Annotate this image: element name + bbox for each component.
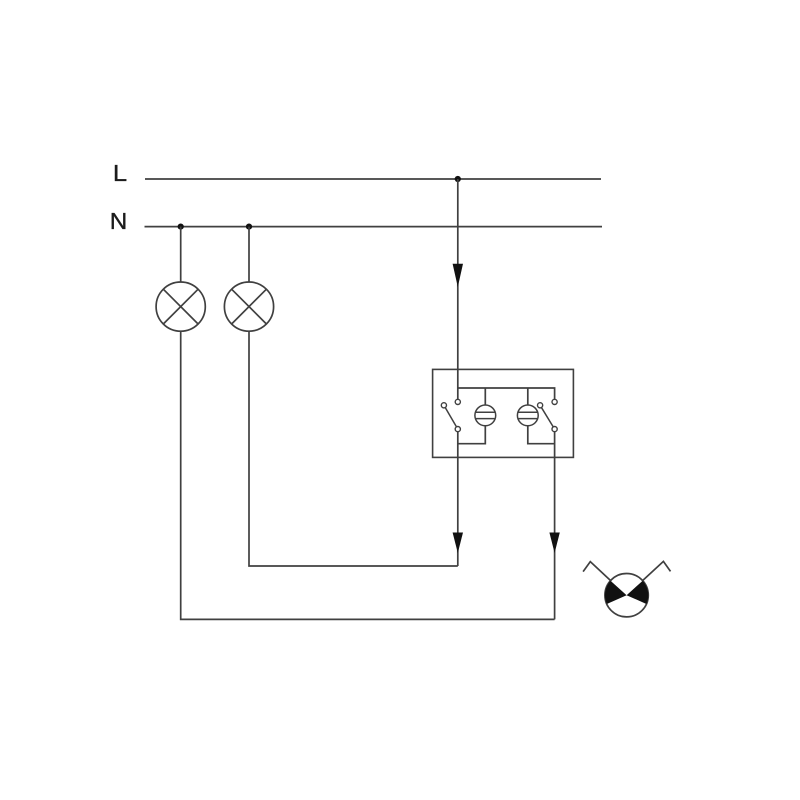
wire lamp E1 return xyxy=(181,331,555,619)
wire indicator H2 bottom lead xyxy=(528,426,555,444)
wire S2 output xyxy=(554,432,556,620)
fan M1 right lead xyxy=(642,561,670,581)
switch unit box xyxy=(433,369,574,457)
lamp E2 xyxy=(224,282,273,331)
indicator lamp H2 xyxy=(517,405,538,426)
wire internal bus bar xyxy=(458,388,555,399)
switch S2 terminals xyxy=(538,399,558,431)
fan M1 left lead xyxy=(583,562,611,581)
wire indicator H1 bottom lead xyxy=(458,426,486,444)
wire feed from L to switch unit xyxy=(457,179,459,399)
indicator lamp H1 xyxy=(475,405,496,426)
wire N line xyxy=(145,226,603,228)
node junction on N (lamp E1) xyxy=(178,224,184,230)
node junction on N (lamp E2) xyxy=(246,224,252,230)
lamp E1 xyxy=(156,282,205,331)
svg-text:N: N xyxy=(110,208,128,234)
switch S1 terminals xyxy=(441,399,460,431)
switch S2 lever xyxy=(540,405,555,429)
wire lamp E1 drop from N xyxy=(180,227,182,283)
svg-text:L: L xyxy=(113,160,127,186)
fan M1 right sector xyxy=(627,581,649,604)
wire lamp E2 return xyxy=(249,331,458,566)
wire L line xyxy=(145,178,601,180)
wire indicator H2 top lead xyxy=(527,388,529,405)
switch S1 lever xyxy=(444,405,458,429)
fan M1 body xyxy=(605,574,648,617)
wire indicator H1 top lead xyxy=(484,388,486,405)
arrow on S1 output xyxy=(453,533,463,554)
node junction on L xyxy=(455,176,461,182)
arrow on feed wire xyxy=(453,264,463,287)
fan M1 left sector xyxy=(605,581,627,604)
wire lamp E2 drop from N xyxy=(248,227,250,283)
arrow on S2 output xyxy=(549,533,559,554)
wire S1 output xyxy=(457,432,459,566)
